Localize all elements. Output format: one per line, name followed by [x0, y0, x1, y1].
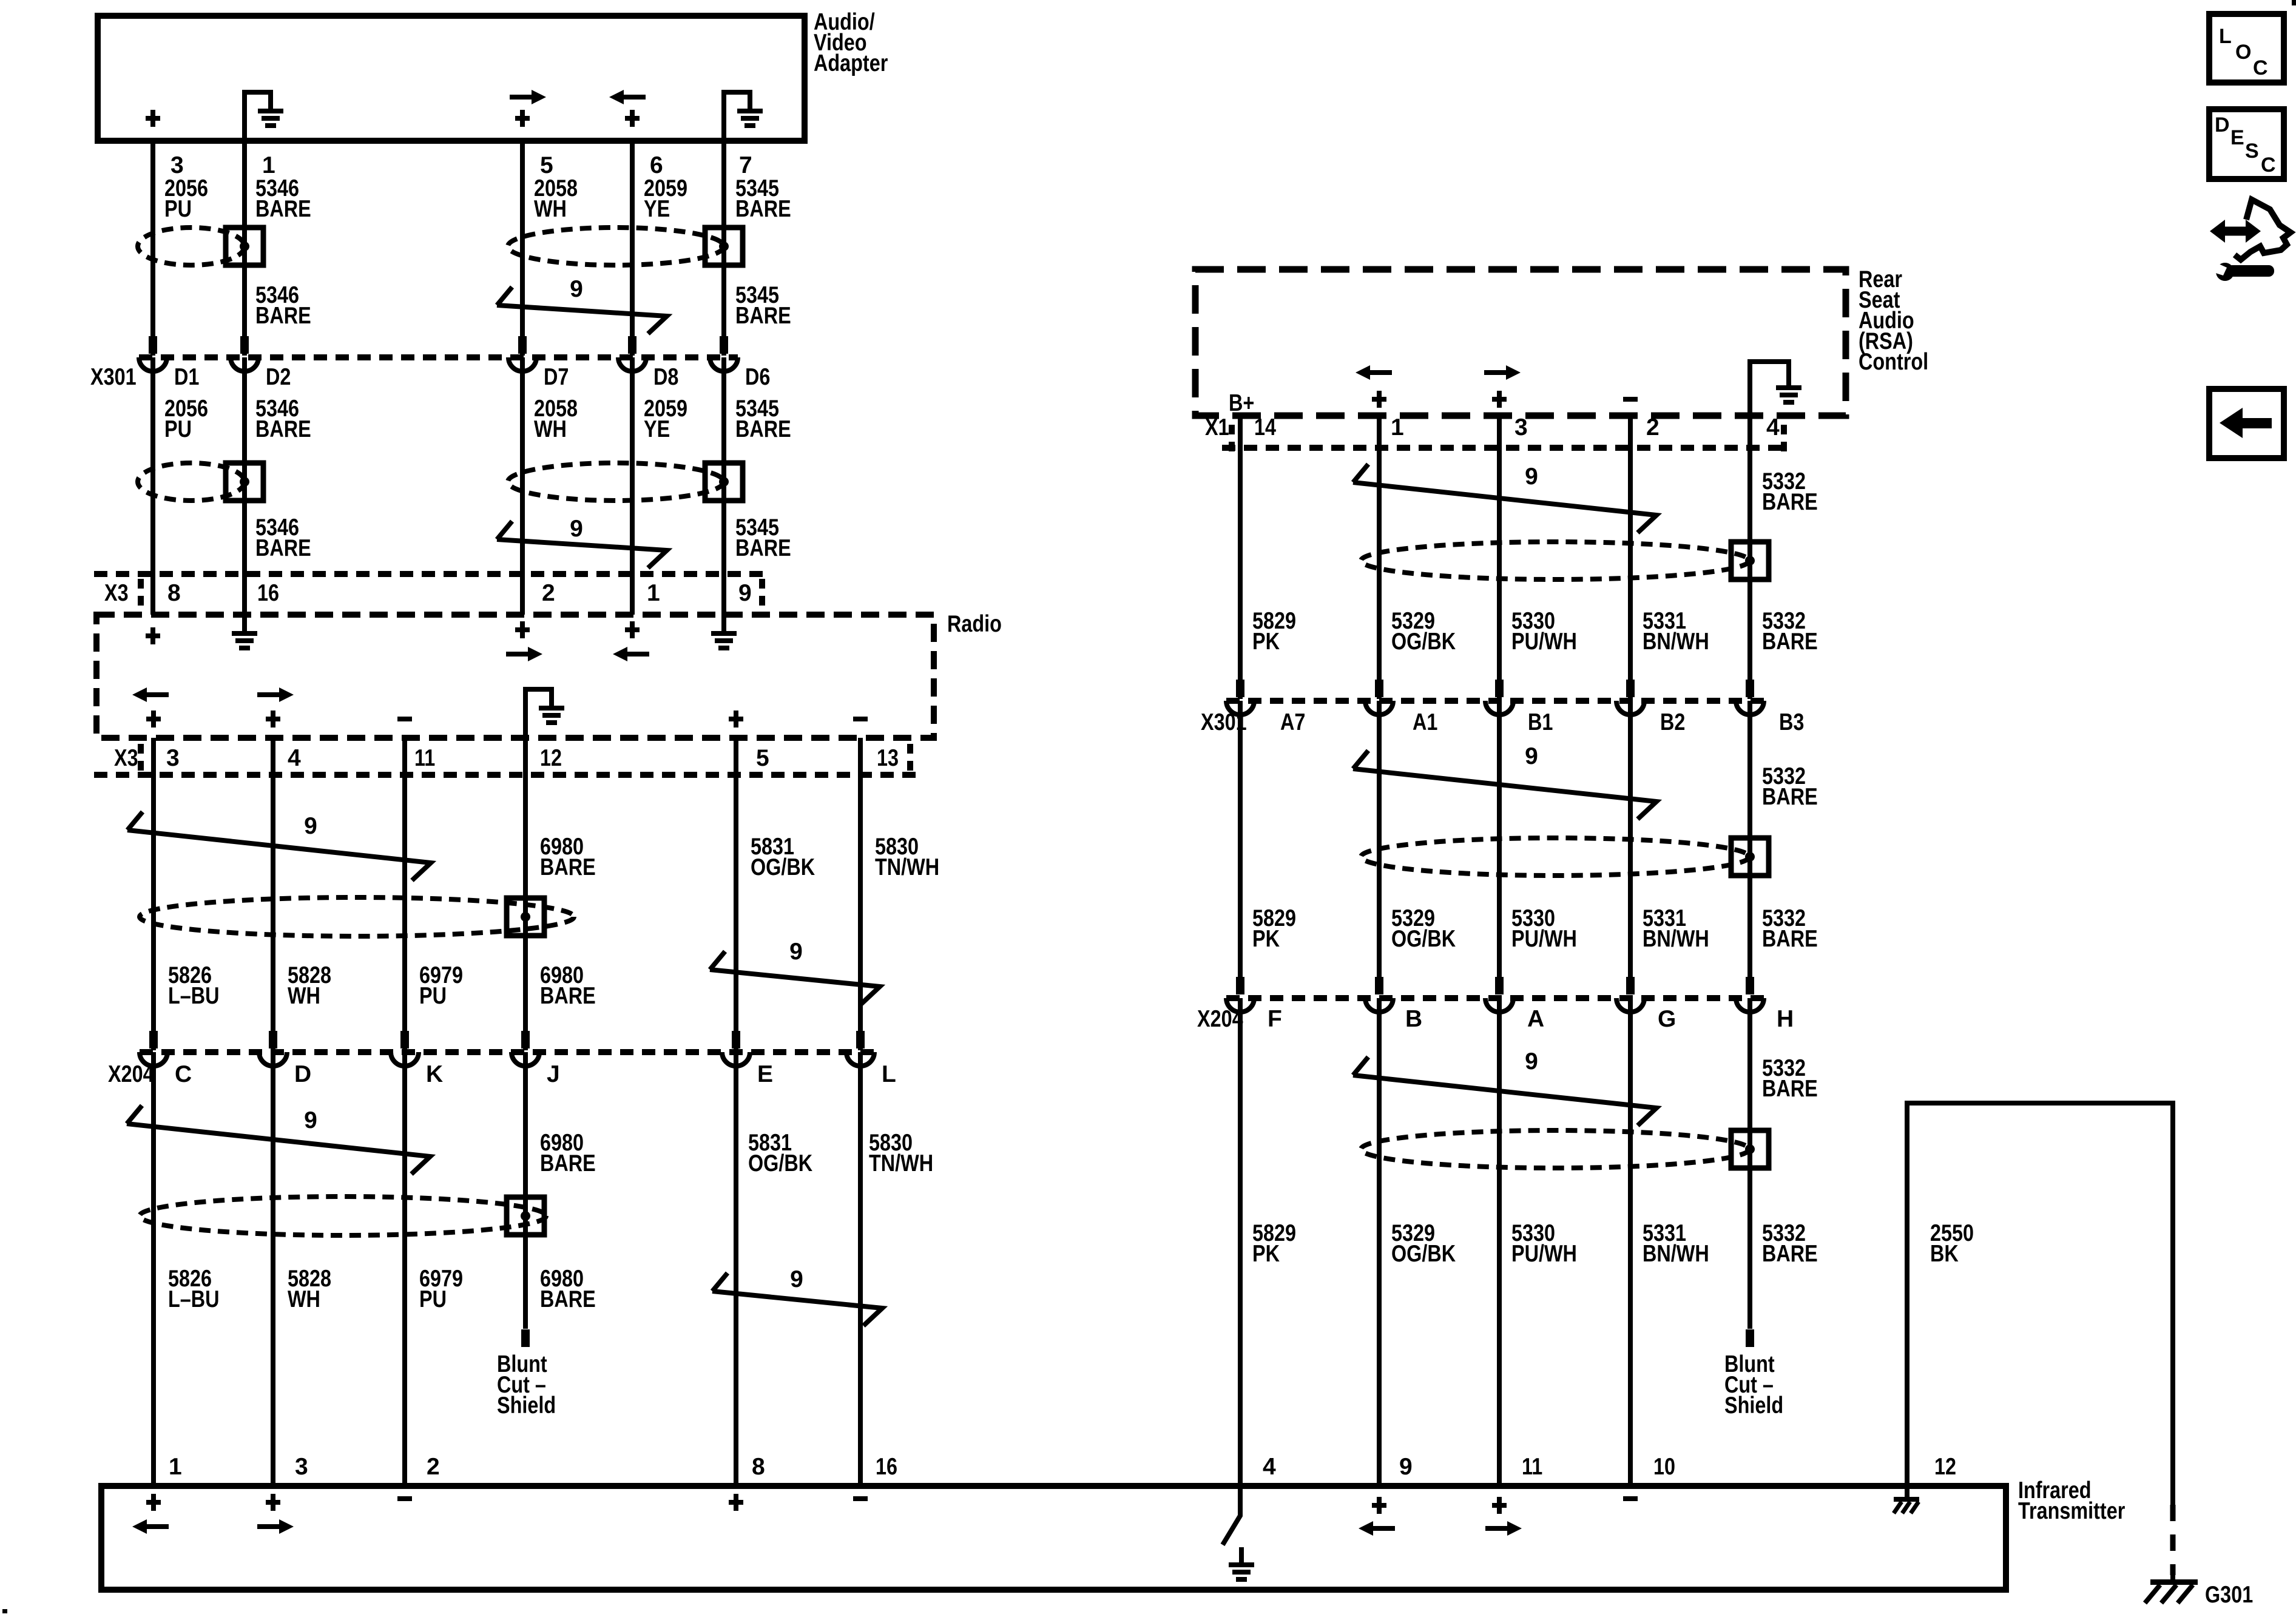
connector terminal X301 cavity 3: [508, 357, 536, 371]
svg-text:YE: YE: [644, 196, 670, 222]
svg-text:Control: Control: [1859, 349, 1928, 375]
connector bracket X3 left: [138, 579, 144, 607]
signal arrow AV pin6 in: [621, 95, 646, 100]
svg-text:X204: X204: [1197, 1006, 1243, 1032]
wire 5330 PU/WH (X204 A to IR 11): [1497, 998, 1502, 1486]
ground symbol Radio pin16 ground: [232, 631, 257, 636]
svg-text:E: E: [2230, 126, 2244, 149]
shield ellipse around 5329/5330/5331: [1361, 838, 1749, 876]
wire 2059 YE (X301 D8 to X3 1): [630, 357, 635, 615]
svg-text:BARE: BARE: [540, 983, 596, 1009]
shield termination on 6980 BARE: [507, 898, 544, 936]
svg-text:Radio: Radio: [947, 611, 1002, 637]
wrench: [2216, 263, 2234, 281]
svg-text:BARE: BARE: [540, 1150, 596, 1176]
svg-text:3: 3: [295, 1454, 308, 1480]
svg-text:4: 4: [1766, 414, 1780, 441]
wire-end stub X301 terminal 2: [240, 336, 249, 354]
svg-text:16: 16: [876, 1454, 897, 1480]
svg-text:1: 1: [1391, 414, 1404, 441]
minus polarity IR pin2: [397, 1496, 412, 1501]
shield termination on 5345 BARE: [705, 463, 743, 501]
connector bracket X3 right: [759, 579, 765, 607]
signal arrow Radio pin1 in: [625, 652, 649, 657]
plus polarity RSA pin1: [1372, 397, 1386, 402]
connector row line X204 right: [1226, 995, 1764, 1001]
icon LOC box: [2209, 14, 2284, 83]
shield ellipse around 2058 WH / 2059 YE: [508, 463, 724, 501]
wire 5829 PK (X1 14 to X301 A7): [1238, 416, 1243, 699]
svg-text:Adapter: Adapter: [814, 50, 888, 76]
twisted-pair marker 5831/5830 pair: [710, 951, 880, 1004]
connector terminal X204R cavity 3: [1485, 998, 1513, 1012]
IR pin4 internal switch to ground: [1223, 1486, 1240, 1545]
connector terminal X301R cavity 5: [1736, 701, 1764, 715]
minus polarity Radio pin13: [853, 717, 868, 721]
svg-text:BARE: BARE: [255, 535, 311, 561]
wire-end stub X301 terminal 1: [149, 336, 157, 354]
svg-text:PU/WH: PU/WH: [1511, 926, 1577, 952]
connector terminal X204 cavity 4: [512, 1052, 539, 1066]
svg-text:BARE: BARE: [255, 196, 311, 222]
connector terminal X204 cavity 5: [722, 1052, 750, 1066]
plus polarity Radio pin8: [146, 633, 160, 638]
connector terminal X204 cavity 6: [846, 1052, 874, 1066]
wire 5331 BN/WH (X301 B2 to X204 G): [1628, 701, 1633, 994]
shield ellipse around 5826/5828/6979: [140, 897, 574, 936]
plus polarity AV pin6: [625, 116, 640, 121]
wire 5332 BARE (X301 B3 to X204 H): [1747, 701, 1752, 994]
wire 2550 BK dashed to G301: [2170, 1505, 2176, 1575]
twisted-pair marker 5831/5830 pair: [712, 1273, 882, 1326]
svg-text:BARE: BARE: [735, 196, 791, 222]
wire 5829 PK (X204 F to IR 4): [1238, 998, 1243, 1486]
ground G301: [2150, 1579, 2198, 1585]
connector terminal X204R cavity 1: [1226, 998, 1254, 1012]
twisted-pair marker 2058/2059 pair: [497, 287, 667, 334]
svg-text:4: 4: [288, 745, 301, 771]
svg-text:9: 9: [1525, 464, 1538, 490]
wire 2056 PU (X301 D1 to X3 8): [150, 357, 155, 615]
svg-text:X301: X301: [90, 364, 137, 390]
svg-text:PK: PK: [1252, 1241, 1280, 1267]
wire-end stub X301R terminal 2: [1375, 680, 1383, 697]
svg-text:J: J: [547, 1061, 560, 1087]
wire-end stub X301R terminal 1: [1236, 680, 1244, 697]
wire 5331 BN/WH (X1 2 to X301 B2): [1628, 416, 1633, 699]
plus polarity IR pin11: [1492, 1503, 1507, 1508]
signal arrow RSA pin1 in: [1368, 370, 1392, 375]
wire-end stub X204 terminal 2: [269, 1031, 277, 1048]
wire 5346 BARE (AV 1 to X301 D2): [242, 141, 247, 356]
svg-text:9: 9: [789, 939, 803, 965]
svg-text:L–BU: L–BU: [168, 1286, 220, 1312]
svg-text:9: 9: [1525, 1048, 1538, 1075]
svg-text:PU: PU: [419, 1286, 447, 1312]
wire 2059 YE (AV 6 to X301 D8): [630, 141, 635, 356]
svg-text:YE: YE: [644, 416, 670, 442]
signal arrow Radio pin3 out: [144, 692, 169, 697]
minus polarity IR pin10: [1623, 1496, 1638, 1501]
svg-text:9: 9: [304, 813, 317, 839]
wire-end stub X301 terminal 5: [720, 336, 728, 354]
wire 5830 TN/WH (X204 L to IR 16): [858, 1052, 863, 1486]
svg-text:BARE: BARE: [735, 303, 791, 329]
svg-text:A7: A7: [1280, 709, 1305, 735]
svg-text:OG/BK: OG/BK: [1391, 629, 1456, 655]
svg-text:5: 5: [756, 745, 769, 771]
wire 5346 BARE into radio: [242, 615, 247, 632]
connector terminal X204R cavity 2: [1365, 998, 1393, 1012]
wire 5329 OG/BK (X204 B to IR 9): [1377, 998, 1382, 1486]
Radio box: [96, 615, 934, 738]
connector terminal X301 cavity 5: [710, 357, 738, 371]
wire 5828 WH (X204 D to IR 3): [271, 1052, 275, 1486]
ground symbol RSA pin4 ground: [1750, 362, 1789, 416]
wire-end stub X204 terminal 5: [732, 1031, 740, 1048]
svg-text:A: A: [1527, 1006, 1544, 1032]
svg-text:PU: PU: [419, 983, 447, 1009]
connector terminal X301 cavity 4: [618, 357, 646, 371]
wire-end stub X301R terminal 4: [1626, 680, 1635, 697]
svg-text:9: 9: [304, 1107, 317, 1133]
twisted-pair marker 5329/5330 pair: [1353, 751, 1656, 819]
page artifact dots: [2292, 0, 2296, 5]
svg-text:BARE: BARE: [1762, 489, 1818, 515]
icon connector-repair (arrow + wrench): [2235, 200, 2291, 260]
wire-end stub X204 terminal 3: [400, 1031, 409, 1048]
svg-text:11: 11: [414, 745, 435, 771]
wire-end stub X204 terminal 1: [149, 1031, 158, 1048]
minus polarity IR pin16: [853, 1496, 868, 1501]
svg-text:9: 9: [1525, 743, 1538, 769]
svg-text:2: 2: [1646, 414, 1660, 441]
connector terminal X204R cavity 4: [1616, 998, 1644, 1012]
svg-text:16: 16: [257, 580, 279, 606]
svg-text:14: 14: [1254, 414, 1276, 441]
svg-text:WH: WH: [534, 196, 567, 222]
svg-text:6: 6: [650, 152, 663, 178]
twisted-pair marker 2058/2059 pair: [497, 521, 667, 568]
svg-text:A1: A1: [1413, 709, 1437, 735]
svg-text:BN/WH: BN/WH: [1643, 1241, 1709, 1267]
svg-text:D6: D6: [745, 364, 770, 390]
signal arrow IR pin3 in: [257, 1524, 282, 1529]
svg-text:BARE: BARE: [540, 1286, 596, 1312]
svg-text:3: 3: [171, 152, 184, 178]
plus polarity IR pin3: [266, 1500, 280, 1505]
wire 5826 L-BU (X204 C to IR 1): [151, 1052, 156, 1486]
twisted-pair marker 5826/5828 pair: [127, 1106, 430, 1174]
wire 5345 BARE (X301 D6 to X3 9): [721, 357, 726, 615]
ground symbol Radio pin9 ground: [711, 631, 737, 636]
connector bracket X1 right: [1781, 425, 1787, 453]
shield ellipse around 2056 PU: [138, 228, 245, 265]
connector bracket X3 left: [138, 744, 144, 772]
connector row line X301 right: [1226, 698, 1764, 704]
svg-text:S: S: [2245, 140, 2259, 163]
wire-end stub X301R terminal 5: [1746, 680, 1754, 697]
wire-end stub X204R terminal 4: [1626, 977, 1635, 994]
svg-text:PU: PU: [164, 416, 192, 442]
ground symbol AV pin1 ground: [245, 92, 271, 141]
wire 5330 PU/WH (X301 B1 to X204 A): [1497, 701, 1502, 994]
svg-text:H: H: [1777, 1006, 1794, 1032]
shield ellipse around 2056 PU: [138, 463, 245, 501]
connector terminal X204 cavity 3: [391, 1052, 419, 1066]
svg-text:K: K: [426, 1061, 443, 1087]
svg-text:7: 7: [739, 152, 752, 178]
svg-text:OG/BK: OG/BK: [751, 854, 815, 880]
svg-text:E: E: [757, 1061, 773, 1087]
wire 5829 PK (X301 A7 to X204 F): [1238, 701, 1243, 994]
wire-end stub blunt cut 5332 BARE: [1746, 1329, 1754, 1347]
shield termination on 6980 BARE: [507, 1197, 544, 1235]
wire 6979 PU (X3 11 to X204 K): [402, 738, 407, 1050]
connector terminal X301R cavity 1: [1226, 701, 1254, 715]
svg-text:BARE: BARE: [255, 303, 311, 329]
ground symbol RSA pin4 ground bars: [1776, 385, 1801, 390]
svg-text:TN/WH: TN/WH: [875, 854, 939, 880]
svg-text:Shield: Shield: [497, 1393, 556, 1419]
twisted-pair marker 5329/5330 pair: [1353, 1057, 1656, 1126]
ground symbol Radio pin12 ground: [525, 689, 552, 738]
plus polarity AV pin5: [515, 116, 530, 121]
wire 5831 OG/BK (X204 E to IR 8): [734, 1052, 738, 1486]
wire 2550 BK loop: [1907, 1103, 2173, 1505]
connector terminal X301 cavity 1: [139, 357, 167, 371]
svg-text:B: B: [1405, 1006, 1422, 1032]
svg-text:X204: X204: [108, 1061, 154, 1087]
svg-text:L: L: [882, 1061, 896, 1087]
connector terminal X301R cavity 3: [1485, 701, 1513, 715]
svg-text:C: C: [175, 1061, 192, 1087]
svg-text:WH: WH: [288, 1286, 320, 1312]
plus polarity Radio pin1: [625, 627, 640, 632]
ground symbol IR pin4 ground: [1229, 1562, 1254, 1567]
signal arrow IR pin1 out: [144, 1524, 169, 1529]
svg-text:B1: B1: [1528, 709, 1553, 735]
shield termination on 5332 BARE: [1731, 838, 1769, 876]
svg-text:X3: X3: [104, 580, 129, 606]
svg-text:PK: PK: [1252, 629, 1280, 655]
svg-text:L: L: [2219, 25, 2232, 48]
signal arrow RSA pin3 out: [1484, 370, 1508, 375]
wire 6980 BARE (X204 J to blunt cut): [523, 1052, 528, 1329]
svg-text:2: 2: [427, 1454, 440, 1480]
ground symbol Radio pin12 ground bars: [539, 706, 564, 711]
wire-end stub X301R terminal 3: [1495, 680, 1504, 697]
svg-text:BARE: BARE: [735, 535, 791, 561]
plus polarity AV pin3: [146, 116, 160, 121]
svg-text:B+: B+: [1229, 390, 1254, 416]
connector row line X204 left: [140, 1049, 874, 1055]
svg-text:BARE: BARE: [735, 416, 791, 442]
svg-text:5: 5: [540, 152, 553, 178]
wire 2058 WH (AV 5 to X301 D7): [520, 141, 525, 356]
shield termination on 5332 BARE: [1731, 1130, 1769, 1168]
shield ellipse around 5826/5828/6979: [140, 1197, 546, 1235]
svg-text:PU: PU: [164, 196, 192, 222]
plus polarity Radio pin5: [729, 717, 743, 721]
wire 5346 BARE (X301 D2 to X3 16): [242, 357, 247, 615]
svg-text:8: 8: [167, 580, 181, 606]
svg-text:TN/WH: TN/WH: [869, 1150, 933, 1176]
Rear Seat Audio (RSA) Control box: [1195, 269, 1846, 416]
svg-text:BN/WH: BN/WH: [1643, 629, 1709, 655]
wire-end stub X204R terminal 1: [1236, 977, 1244, 994]
shield ellipse around 5329/5330/5331: [1361, 542, 1749, 579]
svg-text:L–BU: L–BU: [168, 983, 220, 1009]
svg-text:C: C: [2253, 56, 2268, 79]
svg-text:1: 1: [262, 152, 275, 178]
svg-text:D8: D8: [653, 364, 678, 390]
svg-text:OG/BK: OG/BK: [748, 1150, 812, 1176]
plus polarity IR pin1: [146, 1500, 161, 1505]
svg-text:BARE: BARE: [540, 854, 596, 880]
svg-text:Shield: Shield: [1724, 1393, 1783, 1419]
svg-text:12: 12: [1934, 1454, 1956, 1480]
shield termination on 5332 BARE: [1731, 542, 1769, 579]
svg-text:D7: D7: [544, 364, 569, 390]
wire-end stub X204 terminal 6: [856, 1031, 865, 1048]
svg-text:1: 1: [169, 1454, 182, 1480]
shield ellipse around 2058 WH / 2059 YE: [508, 228, 724, 265]
svg-text:X3: X3: [114, 745, 138, 771]
wire-end stub X301 terminal 4: [628, 336, 636, 354]
svg-text:11: 11: [1522, 1454, 1542, 1480]
wire 2058 WH (X301 D7 to X3 2): [520, 357, 525, 615]
signal arrow IR pin11 out: [1485, 1526, 1510, 1531]
wire 5830 TN/WH (X3 13 to X204 L): [858, 738, 863, 1050]
connector bracket X1 left: [1229, 425, 1235, 453]
plus polarity IR pin8: [729, 1500, 743, 1505]
wire 5330 PU/WH (X1 3 to X301 B1): [1497, 416, 1502, 699]
svg-text:PK: PK: [1252, 926, 1280, 952]
svg-text:D: D: [2215, 113, 2230, 137]
plus polarity IR pin9: [1372, 1503, 1386, 1508]
svg-text:BARE: BARE: [1762, 629, 1818, 655]
svg-text:C: C: [2261, 154, 2276, 177]
svg-text:OG/BK: OG/BK: [1391, 1241, 1456, 1267]
wire 5831 OG/BK (X3 5 to X204 E): [734, 738, 738, 1050]
wire-end stub X204R terminal 2: [1375, 977, 1383, 994]
svg-text:BARE: BARE: [255, 416, 311, 442]
plus polarity Radio pin4: [266, 717, 280, 721]
connector terminal X204R cavity 5: [1736, 998, 1764, 1012]
svg-text:8: 8: [752, 1454, 765, 1480]
ground symbol AV pin7 ground bars: [737, 109, 763, 113]
signal arrow AV pin5 out: [510, 95, 534, 100]
wire 5329 OG/BK (X1 1 to X301 A1): [1377, 416, 1382, 699]
svg-text:4: 4: [1263, 1454, 1276, 1480]
svg-text:B3: B3: [1779, 709, 1804, 735]
svg-text:9: 9: [570, 516, 583, 542]
wire 5332 BARE (X204 H to blunt cut): [1747, 998, 1752, 1329]
svg-text:OG/BK: OG/BK: [1391, 926, 1456, 952]
wire 5331 BN/WH (X204 G to IR 10): [1628, 998, 1633, 1486]
svg-text:9: 9: [570, 276, 583, 302]
svg-text:BARE: BARE: [1762, 784, 1818, 810]
wire 5826 L-BU (X3 3 to X204 C): [151, 738, 156, 1050]
signal arrow Radio pin2 out: [506, 652, 530, 657]
svg-text:BN/WH: BN/WH: [1643, 926, 1709, 952]
svg-text:1: 1: [647, 580, 660, 606]
wire 5345 BARE (AV 7 to X301 D6): [721, 141, 726, 356]
svg-text:Transmitter: Transmitter: [2018, 1498, 2125, 1524]
connector row line X1: [1222, 445, 1789, 451]
svg-text:B2: B2: [1660, 709, 1685, 735]
wire 2056 PU (AV 3 to X301 D1): [150, 141, 155, 356]
svg-text:WH: WH: [288, 983, 320, 1009]
svg-text:PU/WH: PU/WH: [1511, 1241, 1577, 1267]
minus polarity RSA pin2: [1623, 397, 1638, 402]
svg-text:F: F: [1268, 1006, 1282, 1032]
svg-text:10: 10: [1653, 1454, 1675, 1480]
connector row line X3 top: [94, 571, 766, 577]
svg-text:WH: WH: [534, 416, 567, 442]
twisted-pair marker 5826/5828 pair: [127, 812, 431, 880]
wire 5828 WH (X3 4 to X204 D): [271, 738, 275, 1050]
svg-text:9: 9: [1399, 1454, 1413, 1480]
shield termination on 5346 BARE: [226, 463, 263, 501]
signal arrow IR pin9 in: [1371, 1526, 1395, 1531]
wire-end stub X204R terminal 5: [1746, 977, 1754, 994]
signal arrow Radio pin4 in: [257, 692, 282, 697]
svg-text:X1: X1: [1205, 414, 1229, 441]
ground symbol AV pin1 ground bars: [258, 109, 283, 113]
svg-text:BARE: BARE: [1762, 1076, 1818, 1102]
wire 5332 BARE (X1 4 to X301 B3): [1747, 416, 1752, 699]
wire 6979 PU (X204 K to IR 2): [402, 1052, 407, 1486]
svg-text:13: 13: [877, 745, 899, 771]
svg-text:BK: BK: [1930, 1241, 1959, 1267]
minus polarity Radio pin11: [397, 717, 412, 721]
wire-end stub X204 terminal 4: [521, 1031, 530, 1048]
connector row line X3 bottom: [94, 772, 916, 778]
plus polarity RSA pin3: [1492, 397, 1507, 402]
svg-text:9: 9: [738, 580, 752, 606]
twisted-pair marker 5329/5330 pair: [1353, 464, 1656, 533]
svg-text:BARE: BARE: [1762, 1241, 1818, 1267]
wire 6980 BARE (X3 12 to X204 J): [523, 738, 528, 1050]
svg-text:D: D: [294, 1061, 311, 1087]
svg-text:2: 2: [542, 580, 555, 606]
svg-text:12: 12: [540, 745, 562, 771]
wire-end stub blunt cut 6980 BARE: [521, 1329, 530, 1347]
svg-text:G301: G301: [2205, 1582, 2253, 1608]
shield termination on 5345 BARE: [705, 228, 743, 265]
svg-text:D1: D1: [174, 364, 199, 390]
plus polarity Radio pin3: [146, 717, 161, 721]
ground symbol AV pin7 ground: [724, 92, 750, 141]
plus polarity Radio pin2: [515, 627, 530, 632]
shield ellipse around 5329/5330/5331: [1361, 1130, 1749, 1168]
icon back-arrow box: [2209, 389, 2284, 458]
IR pin12 chassis ground: [1905, 1486, 1909, 1498]
svg-text:3: 3: [166, 745, 180, 771]
svg-text:BARE: BARE: [1762, 926, 1818, 952]
Infrared Transmitter box: [101, 1486, 2006, 1590]
svg-text:O: O: [2235, 41, 2251, 64]
wire 5329 OG/BK (X301 A1 to X204 B): [1377, 701, 1382, 994]
connector terminal X204 cavity 2: [259, 1052, 287, 1066]
svg-text:9: 9: [790, 1266, 803, 1292]
connector terminal X301R cavity 2: [1365, 701, 1393, 715]
connector terminal X301R cavity 4: [1616, 701, 1644, 715]
connector terminal X301 cavity 2: [231, 357, 258, 371]
svg-text:D2: D2: [266, 364, 291, 390]
